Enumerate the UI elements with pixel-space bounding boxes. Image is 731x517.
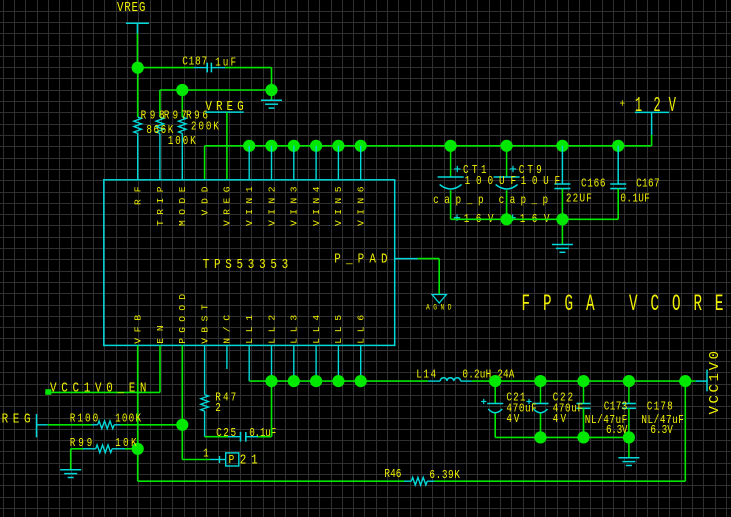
resistor R100 net flag bar <box>36 414 38 437</box>
pin VIN5 <box>333 186 344 226</box>
value label 100K (R100) <box>115 413 141 426</box>
svg-text:LL5: LL5 <box>333 315 344 344</box>
pin VIN3 <box>289 186 300 226</box>
svg-text:R46: R46 <box>384 468 401 481</box>
svg-text:C166: C166 <box>581 178 605 191</box>
wire pin VIN4 <box>315 146 317 180</box>
capacitor C178 <box>622 381 636 437</box>
value label 470uF (C21) <box>506 403 536 416</box>
wire input-cap return bus <box>451 218 619 220</box>
polarity + (CT1 16V) <box>454 215 460 221</box>
wire R98 to pin RF <box>137 133 139 179</box>
value label 100UF (CT1) <box>465 175 516 188</box>
wire bus to +12V <box>651 112 653 145</box>
pin LL2 <box>266 315 277 344</box>
resistor R46 <box>404 477 435 485</box>
net label VREG (VREG pin) <box>205 99 243 115</box>
pin number 1 (TP21) <box>203 447 209 460</box>
pin LL6 <box>356 315 367 344</box>
wire pin LL1 <box>248 345 250 381</box>
ground (output caps) <box>618 437 639 465</box>
wire EN to label <box>45 391 160 393</box>
svg-text:0.2uH 24A: 0.2uH 24A <box>462 369 515 382</box>
junction LL5 <box>332 375 344 387</box>
pin VREG <box>222 186 233 226</box>
label R99 <box>70 437 92 450</box>
value label 10K (R99) <box>115 437 137 450</box>
svg-text:1: 1 <box>203 447 209 460</box>
junction input-cap 0 <box>445 140 457 152</box>
resistor R100 <box>92 421 121 429</box>
pin EN <box>155 325 166 344</box>
net label VCC1V0 <box>707 351 723 415</box>
node B junction (MODE-R96 row) <box>176 84 188 96</box>
wire pin LL4 <box>315 345 317 381</box>
value label NL/47uF (C173) <box>585 414 628 427</box>
voltage label 16V (CT1) <box>464 213 494 226</box>
svg-text:C178: C178 <box>647 400 673 413</box>
junction output-cap return 2 <box>577 431 589 443</box>
pin LL3 <box>289 315 300 344</box>
polarity + (CT1) <box>454 166 460 172</box>
junction VIN6 <box>355 140 367 152</box>
value label 10UF (CT9) <box>521 175 560 188</box>
pin P_PAD <box>334 251 387 267</box>
wire VREG label to pin VREG <box>226 112 228 180</box>
junction output-cap 2 <box>577 375 589 387</box>
testpoint TP21 box <box>226 453 239 466</box>
svg-text:C167: C167 <box>636 178 659 191</box>
junction VIN1 <box>243 140 255 152</box>
pin VIN6 <box>356 186 367 226</box>
net label +12V <box>620 95 677 118</box>
wire pin LL6 <box>360 345 362 381</box>
wire feedback to R46 <box>138 480 404 482</box>
pin VIN2 <box>266 186 277 226</box>
node C junction (ground tie) <box>265 84 277 96</box>
polarity + (CT9 16V) <box>509 215 515 221</box>
node A junction (VREG-R98-C187) <box>132 62 144 74</box>
svg-text:P: P <box>229 454 235 467</box>
label L14 <box>416 369 436 382</box>
svg-text:2: 2 <box>215 402 221 415</box>
wire output-cap return bus <box>495 436 629 438</box>
wire R99 to VFB <box>125 448 138 450</box>
wire pin VIN6 <box>360 146 362 180</box>
junction input-cap 3 <box>612 140 624 152</box>
wire pin N/C stub <box>226 345 228 369</box>
net flag +12V <box>635 111 669 113</box>
label TP21 suffix 21 <box>240 452 258 468</box>
value label 1uF (C187) <box>215 57 236 70</box>
wire pin PGOOD down <box>181 345 183 459</box>
resistor R98 <box>134 117 142 133</box>
junction VIN4 <box>310 140 322 152</box>
svg-text:R97: R97 <box>164 110 187 123</box>
svg-text:0.1UF: 0.1UF <box>620 192 649 205</box>
junction output-cap 0 <box>489 375 501 387</box>
svg-text:L14: L14 <box>416 369 436 382</box>
svg-text:200K: 200K <box>191 120 219 133</box>
svg-text:VREG: VREG <box>0 412 31 428</box>
wire R46 to output <box>435 381 686 481</box>
wire C187 to ground node <box>225 67 272 69</box>
junction input-cap 2 <box>556 140 568 152</box>
net label AGND <box>426 304 452 313</box>
pin VFB <box>133 315 144 344</box>
value label 866K (R98) <box>146 124 173 137</box>
wire node A to R98 <box>137 68 139 117</box>
pin VBST <box>199 304 210 344</box>
pin VDD <box>199 186 210 215</box>
label C167 <box>636 178 659 191</box>
wire node B to R97 <box>159 90 161 117</box>
wire VIN bus <box>205 145 652 147</box>
node VCC1V0_EN terminal <box>45 389 51 395</box>
net label VCC1V0_EN <box>50 380 146 396</box>
wire P_PAD stub <box>395 258 418 260</box>
svg-text:100K: 100K <box>168 135 196 148</box>
wire R97 to pin TRIP <box>159 133 161 179</box>
junction output-cap return 1 <box>534 431 546 443</box>
value label NL/47uF (C178) <box>641 414 684 427</box>
pin VIN4 <box>311 186 322 226</box>
svg-text:V: V <box>669 95 677 118</box>
wire pin VBST down <box>204 345 206 394</box>
value label 200K (R96) <box>191 120 219 133</box>
svg-text:VREG: VREG <box>117 0 145 15</box>
label CT1 <box>463 164 486 177</box>
pin LL1 <box>244 315 255 344</box>
resistor R99 <box>83 445 125 453</box>
svg-text:R98: R98 <box>141 110 165 123</box>
capacitor CT1 <box>438 146 464 220</box>
net label VREG (top) <box>117 0 145 15</box>
junction LL3 <box>288 375 300 387</box>
wire VREG flag to R100 <box>37 424 92 426</box>
capacitor C22 <box>526 381 548 437</box>
junction LL4 <box>310 375 322 387</box>
value label 22UF (C166) <box>566 192 592 205</box>
label R96 <box>186 110 208 123</box>
junction PGOOD-R100 <box>176 419 188 431</box>
capacitor C187 <box>194 63 225 73</box>
ground (input caps) <box>552 219 573 252</box>
wire down to ground junction <box>271 68 273 90</box>
voltage label 6.3V (C178) <box>650 424 673 437</box>
wire P_PAD to AGND <box>418 259 440 295</box>
svg-text:C187: C187 <box>182 56 207 69</box>
junction VIN3 <box>288 140 300 152</box>
label R100 <box>70 413 98 426</box>
svg-text:1: 1 <box>635 95 642 118</box>
wire VFB to feedback <box>137 449 139 481</box>
svg-text:C25: C25 <box>216 427 236 440</box>
svg-text:LL2: LL2 <box>266 315 277 344</box>
voltage label 4V (C21) <box>506 413 520 426</box>
label CT9 <box>519 164 542 177</box>
junction VIN5 <box>332 140 344 152</box>
svg-text:VDD: VDD <box>199 186 210 215</box>
junction output-cap 3 <box>623 375 635 387</box>
net flag VREG (top) <box>126 23 149 33</box>
wire R47 to C25 <box>205 411 228 437</box>
junction output-cap return 3 <box>623 431 635 443</box>
wire VREG flag to node A <box>136 34 138 68</box>
label C166 <box>581 178 605 191</box>
inductor L14 <box>428 378 471 381</box>
wire pin LL3 <box>293 345 295 381</box>
junction LL2 <box>265 375 277 387</box>
svg-text:6.3V: 6.3V <box>650 424 673 437</box>
svg-text:VCC1V0_EN: VCC1V0_EN <box>50 380 146 396</box>
pin TRIP <box>155 186 166 226</box>
label C173 <box>604 400 627 413</box>
svg-text:LL6: LL6 <box>356 315 367 344</box>
voltage label 6.3V (C173) <box>606 424 628 437</box>
pin MODE <box>177 186 188 226</box>
svg-text:4V: 4V <box>506 413 520 426</box>
label C22 <box>553 391 574 404</box>
svg-text:22UF: 22UF <box>566 192 592 205</box>
junction input-cap return C166 <box>556 213 568 225</box>
junction VCC1V0 branch <box>679 375 691 387</box>
wire R96 to pin MODE <box>181 133 183 179</box>
label TPS53353 <box>203 257 288 273</box>
net flag VCC1V0 <box>696 370 707 392</box>
wire node A to C187 <box>138 67 194 69</box>
pin RF <box>133 186 144 205</box>
capacitor C25 <box>228 432 258 442</box>
capacitor C167 <box>610 146 626 220</box>
label R97 <box>164 110 187 123</box>
svg-text:+: + <box>620 98 626 111</box>
label C178 <box>647 400 673 413</box>
junction VFB-R99 <box>132 443 144 455</box>
value label 100K (R97) <box>168 135 196 148</box>
label R98 <box>141 110 165 123</box>
pin LL5 <box>333 315 344 344</box>
ground (C187 return) <box>261 90 282 108</box>
capacitor CT9 <box>494 146 520 220</box>
junction output-cap 1 <box>534 375 546 387</box>
resistor R97 <box>156 117 164 133</box>
pin N/C <box>222 315 233 344</box>
value label 2 (R47) <box>215 402 221 415</box>
wire C25 to LL bus <box>258 381 272 437</box>
wire node B to R96 <box>181 96 183 118</box>
pin VIN1 <box>244 186 255 226</box>
wire pin VIN3 <box>293 146 295 180</box>
label C21 <box>506 391 525 404</box>
junction LL6 <box>355 375 367 387</box>
junction VIN2 <box>265 140 277 152</box>
wire VCC1V0 output <box>472 380 696 382</box>
wire VDD to bus <box>204 146 206 180</box>
label C187 <box>182 56 207 69</box>
wire pin VIN2 <box>271 146 273 180</box>
net flag VREG (left edge) <box>0 412 31 428</box>
wire pin EN down <box>159 345 161 392</box>
value label 0.1UF (C167) <box>620 192 649 205</box>
svg-text:R99: R99 <box>70 437 92 450</box>
svg-text:LL3: LL3 <box>289 315 300 344</box>
op-amp U1 TPS53353 body <box>104 180 395 346</box>
type label cap_p (CT9) <box>499 194 549 207</box>
capacitor C166 <box>554 146 570 220</box>
polarity + (CT9) <box>510 166 516 172</box>
wire PGOOD to TP21 <box>182 456 225 463</box>
type label cap_p (CT1) <box>433 194 483 207</box>
voltage label 16V (CT9) <box>520 213 550 226</box>
value label 0.2uH 24A (L14) <box>462 369 515 382</box>
value label 6.39K (R46) <box>429 469 460 482</box>
svg-text:100K: 100K <box>115 413 141 426</box>
wire pin VIN5 <box>337 146 339 180</box>
ground (R99) <box>60 470 81 478</box>
label R47 <box>215 392 236 405</box>
wire TRIP-MODE row <box>160 89 272 91</box>
capacitor C21 <box>481 381 503 437</box>
wire LL bus <box>249 380 428 382</box>
ground AGND symbol <box>432 295 446 304</box>
svg-text:VFB: VFB <box>133 315 144 344</box>
resistor R96 <box>179 117 187 133</box>
net flag underline (VREG pin) <box>205 111 243 113</box>
resistor R47 <box>201 395 209 412</box>
voltage label 4V (C22) <box>553 413 567 426</box>
svg-text:C173: C173 <box>604 400 627 413</box>
svg-text:LL1: LL1 <box>244 315 255 344</box>
pin PGOOD <box>177 294 188 344</box>
junction input-cap 1 <box>501 140 513 152</box>
pin LL4 <box>311 315 322 344</box>
svg-text:N/C: N/C <box>222 315 233 344</box>
junction input-cap return CT9 <box>501 213 513 225</box>
wire pin LL5 <box>337 345 339 381</box>
capacitor C173 <box>577 381 591 437</box>
testpoint TP21 letter <box>229 454 235 467</box>
wire pin VFB down <box>137 345 139 448</box>
wire R99 corner <box>71 449 83 470</box>
wire pin LL2 <box>271 345 273 381</box>
value label 470uF (C22) <box>553 403 583 416</box>
label C25 <box>216 427 236 440</box>
wire R100 to PGOOD <box>121 424 183 426</box>
label R46 <box>384 468 401 481</box>
svg-text:2: 2 <box>653 95 660 118</box>
svg-text:LL4: LL4 <box>311 315 322 344</box>
net label FPGA VCORE <box>522 291 724 317</box>
wire pin VIN1 <box>248 146 250 180</box>
value label 0.1uF (C25) <box>249 427 276 440</box>
